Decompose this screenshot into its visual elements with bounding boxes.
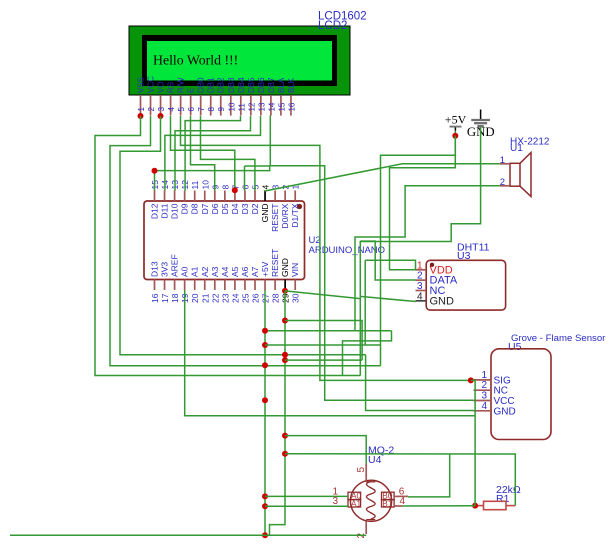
svg-text:5: 5 [177,107,186,112]
svg-text:B1: B1 [382,498,393,508]
svg-text:DB3: DB3 [227,77,236,93]
svg-text:DB1: DB1 [207,77,216,93]
svg-text:10: 10 [227,102,236,111]
svg-text:DB5: DB5 [247,77,256,93]
svg-text:14: 14 [267,102,276,111]
svg-text:AREF: AREF [170,254,180,277]
svg-text:1: 1 [137,107,146,112]
svg-text:D3: D3 [240,203,250,214]
svg-text:10: 10 [200,180,210,190]
svg-text:4: 4 [417,291,423,302]
svg-text:A4: A4 [220,266,230,277]
svg-text:8: 8 [220,185,230,190]
svg-text:23: 23 [220,293,230,303]
svg-text:15: 15 [277,102,286,111]
svg-text:RESET: RESET [270,249,280,277]
svg-text:A7: A7 [250,266,260,277]
svg-text:18: 18 [170,293,180,303]
svg-text:9: 9 [217,107,226,112]
svg-text:6: 6 [187,107,196,112]
svg-text:1: 1 [500,155,505,166]
svg-text:Hello World !!!: Hello World !!! [153,53,238,68]
svg-text:17: 17 [160,293,170,303]
svg-text:D13: D13 [150,261,160,277]
svg-text:U5: U5 [508,341,522,353]
svg-text:D5: D5 [220,203,230,214]
svg-text:DB0: DB0 [197,77,206,93]
svg-text:A3: A3 [210,266,220,277]
svg-text:5: 5 [356,467,367,473]
svg-text:30: 30 [291,293,301,303]
svg-text:D4: D4 [230,203,240,214]
svg-text:D1/TX: D1/TX [290,203,300,227]
svg-text:2: 2 [147,107,156,112]
svg-text:U1: U1 [510,143,523,154]
svg-text:D0/RX: D0/RX [280,203,290,228]
svg-text:U4: U4 [368,454,382,466]
svg-text:4: 4 [261,185,271,190]
svg-text:A1: A1 [351,498,362,508]
svg-text:R/W: R/W [177,77,186,93]
svg-text:A2: A2 [200,266,210,277]
svg-text:A0: A0 [180,266,190,277]
svg-text:22: 22 [210,293,220,303]
svg-text:D2: D2 [250,203,260,214]
svg-text:25: 25 [240,293,250,303]
svg-text:A6: A6 [240,266,250,277]
svg-text:RS: RS [167,82,176,93]
svg-text:21: 21 [200,293,210,303]
svg-text:4: 4 [481,401,487,412]
svg-text:D6: D6 [210,203,220,214]
svg-text:+5V: +5V [260,261,270,277]
svg-text:BLK: BLK [287,77,296,93]
svg-text:6: 6 [240,185,250,190]
svg-text:13: 13 [257,102,266,111]
svg-text:VO: VO [157,81,166,93]
svg-text:7: 7 [197,107,206,112]
svg-text:3V3: 3V3 [160,262,170,277]
svg-text:16: 16 [150,293,160,303]
svg-text:A1: A1 [190,266,200,277]
svg-text:D11: D11 [160,203,170,218]
svg-text:A5: A5 [230,266,240,277]
svg-text:4: 4 [167,107,176,112]
svg-text:GND: GND [260,204,270,223]
svg-text:+5V: +5V [445,112,467,126]
svg-text:24: 24 [230,293,240,303]
svg-text:Grove - Flame Sensor: Grove - Flame Sensor [511,333,606,344]
svg-text:VCC: VCC [147,76,156,93]
svg-text:DB4: DB4 [237,77,246,93]
svg-text:11: 11 [237,103,246,112]
svg-text:20: 20 [190,293,200,303]
svg-text:DB7: DB7 [267,77,276,93]
svg-text:LCD2: LCD2 [318,20,347,32]
svg-text:3: 3 [417,281,423,292]
svg-text:2: 2 [500,177,505,188]
svg-text:GND: GND [494,406,516,417]
svg-text:E: E [187,88,196,93]
svg-text:12: 12 [247,102,256,111]
svg-text:D7: D7 [200,203,210,214]
svg-text:VSS: VSS [137,77,146,93]
svg-text:VIN: VIN [290,263,300,277]
svg-text:1: 1 [417,260,423,271]
svg-text:DB2: DB2 [217,77,226,93]
svg-text:26: 26 [251,293,261,303]
svg-text:11: 11 [190,180,200,189]
svg-text:DB6: DB6 [257,77,266,93]
svg-text:GND: GND [280,258,290,277]
svg-text:8: 8 [207,107,216,112]
svg-text:D12: D12 [150,203,160,219]
svg-text:BLA: BLA [277,77,286,93]
svg-text:D9: D9 [180,203,190,214]
svg-text:3: 3 [157,107,166,112]
svg-text:D8: D8 [190,203,200,214]
svg-text:28: 28 [271,293,281,303]
svg-text:RESET: RESET [270,204,280,232]
svg-text:GND: GND [430,295,455,307]
svg-text:16: 16 [287,102,296,111]
svg-text:2: 2 [417,271,423,282]
svg-text:D10: D10 [170,203,180,219]
